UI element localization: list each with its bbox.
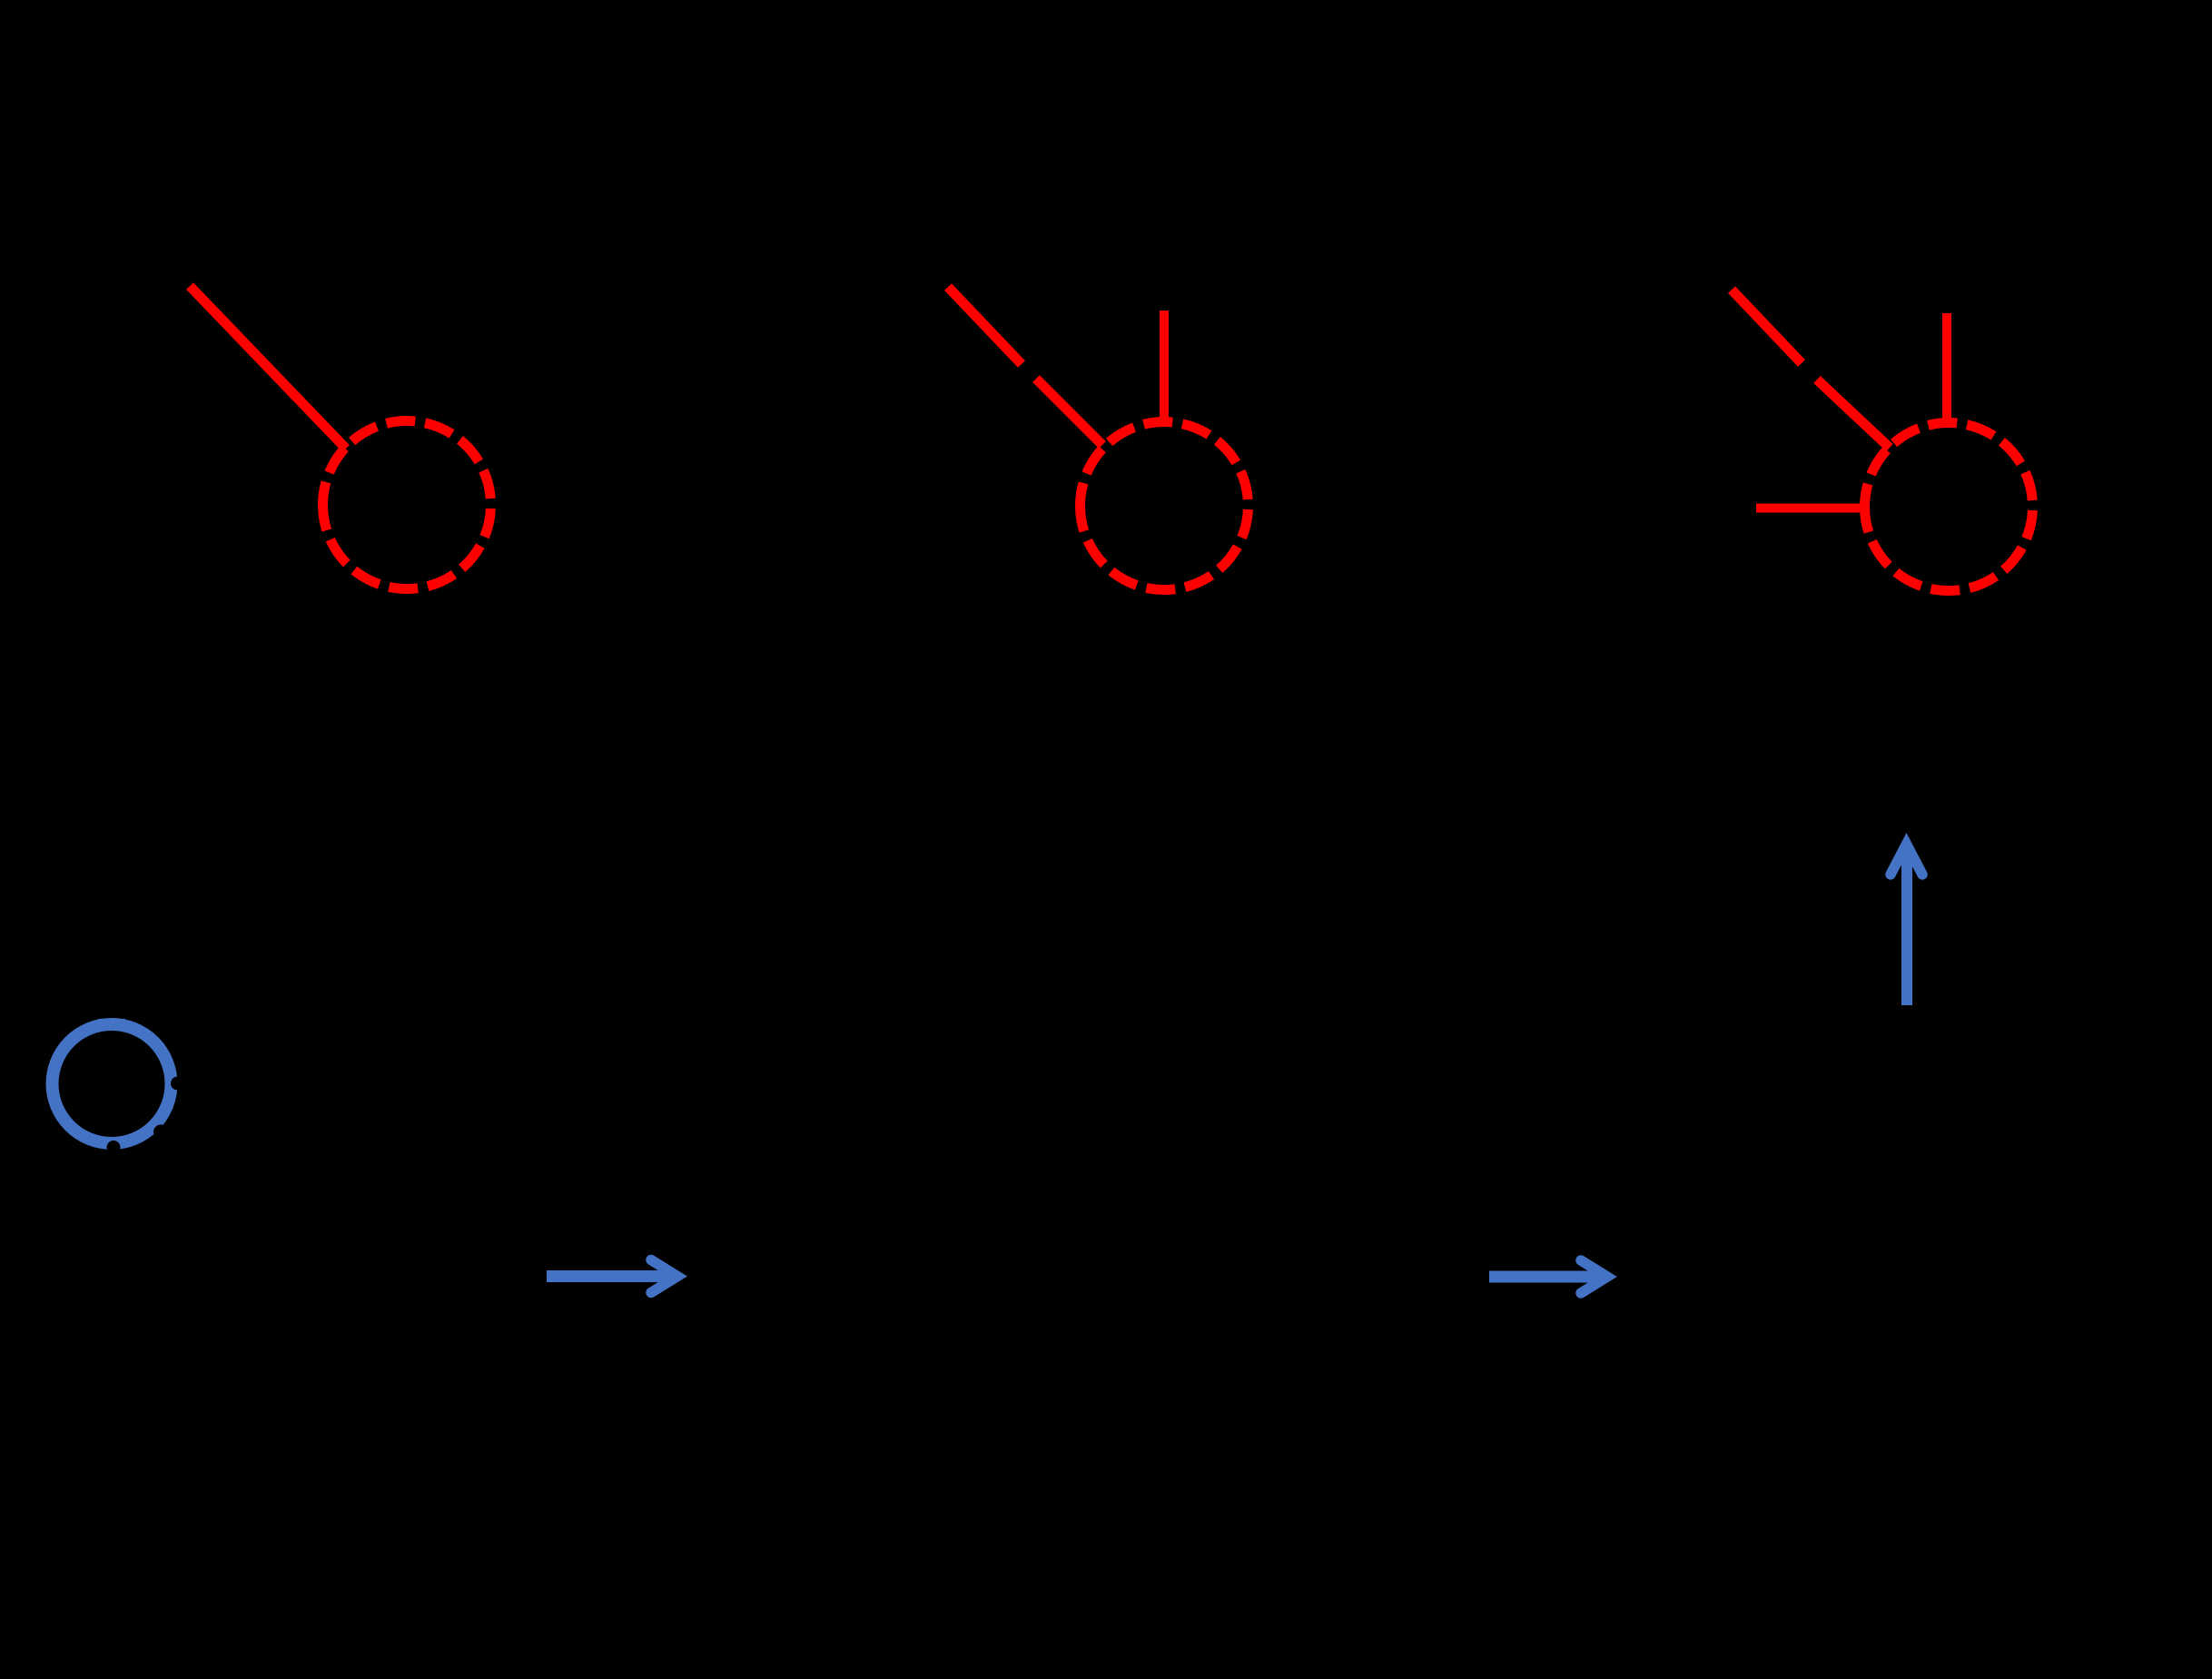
dashed template circle T3 (right group) — [1865, 423, 2033, 591]
monomer line M3b (right group diagonal, lower part) — [1817, 380, 1890, 448]
dashed template circle T2 (middle group) — [1081, 422, 1249, 590]
monomer line V3 (right group vertical) — [1942, 313, 1951, 421]
monomer line M1 (left group diagonal) — [190, 286, 346, 449]
process arrow A2 head — [1581, 1260, 1607, 1293]
monomer line M2a (middle group diagonal, upper part) — [948, 287, 1022, 364]
monomer line V2 (middle group vertical) — [1160, 311, 1169, 421]
process arrow A1 shaft — [547, 1270, 676, 1282]
flat chord at top of B1 — [98, 1019, 125, 1023]
process arrow A3 (up) head — [1891, 844, 1922, 875]
occlusion notch on B1 lower-right — [153, 1125, 168, 1140]
blue template molecule circle B1 — [53, 1024, 172, 1143]
occlusion notch on B1 right — [171, 1077, 184, 1091]
occlusion notch on B1 bottom — [107, 1141, 121, 1154]
process arrow A2 shaft — [1489, 1271, 1604, 1283]
process arrow A3 (up) shaft — [1901, 849, 1912, 1005]
monomer line M3a (right group diagonal, upper part) — [1732, 290, 1802, 363]
monomer line M2b (middle group diagonal, lower part) — [1036, 379, 1102, 445]
dashed template circle T1 (left group) — [323, 421, 491, 589]
process arrow A1 head — [651, 1260, 677, 1293]
monomer line H3 (right group horizontal) — [1756, 504, 1864, 513]
